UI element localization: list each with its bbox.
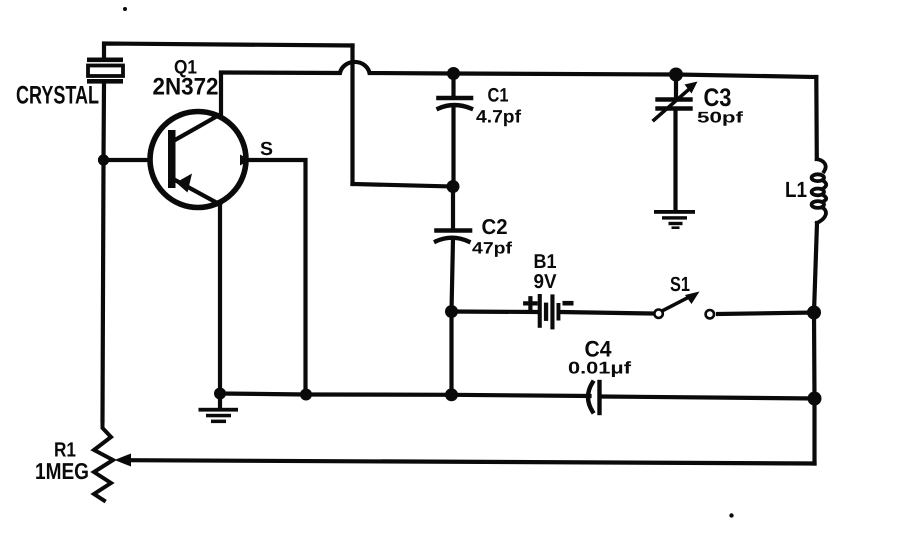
capacitor C4 (588, 382, 600, 413)
node C3 top (669, 68, 683, 82)
wire feedback horizontal to C1-C2 node (353, 184, 454, 187)
battery B1 (525, 294, 573, 329)
svg-text:9V: 9V (534, 271, 558, 293)
ground below emitter (199, 394, 239, 424)
transistor Q1 (150, 112, 246, 208)
wire node to C1 (451, 74, 455, 97)
node C1-C2 junction (447, 180, 460, 193)
capacitor C2 (436, 231, 470, 242)
wire crystal bottom to base node (101, 84, 106, 161)
wire bottom rail to R1 wiper (130, 460, 815, 463)
wire S node right and down (246, 160, 306, 395)
switch S1 (654, 292, 714, 319)
wire base (104, 158, 151, 162)
svg-text:S1: S1 (670, 273, 690, 296)
svg-text:C3: C3 (704, 84, 732, 112)
wire ground rail (220, 394, 590, 397)
wire C3 to ground (673, 110, 677, 210)
svg-text:2N372: 2N372 (153, 74, 219, 101)
svg-text:S: S (260, 139, 273, 160)
wire C2 down to battery rail node (452, 239, 454, 312)
wire collector up (219, 73, 223, 115)
wire battery to switch (561, 312, 652, 314)
svg-text:1MEG: 1MEG (35, 458, 89, 484)
wire top rail with hop over feedback wire (221, 62, 816, 77)
crystal Y1 (87, 58, 123, 84)
node base junction (98, 154, 109, 165)
wire crystal top to feedback corner (104, 44, 353, 59)
svg-text:47pf: 47pf (472, 240, 513, 258)
wire node to C2 (451, 187, 455, 229)
capacitor C1 (439, 98, 472, 109)
resistor R1 (94, 421, 113, 501)
ground below C3 (654, 210, 695, 229)
wire emitter down (218, 205, 222, 394)
svg-text:4.7pf: 4.7pf (476, 107, 522, 127)
svg-text:50pf: 50pf (697, 110, 744, 127)
svg-text:C1: C1 (488, 85, 509, 107)
wire right rail down to bottom corner (812, 399, 816, 464)
wire right rail to ground rail node (812, 313, 817, 399)
node battery rail left (445, 305, 458, 318)
node S on transistor case (240, 155, 251, 166)
node switch rail right (807, 306, 821, 320)
node C1 top (447, 67, 460, 80)
wire right rail down to L1 (814, 77, 819, 159)
wire node to C3 (674, 75, 678, 98)
wire battery node down to ground rail (449, 312, 453, 395)
svg-text:0.01μf: 0.01μf (568, 359, 631, 378)
inductor L1 (812, 159, 827, 223)
wire switch to right rail (718, 313, 814, 315)
svg-text:CRYSTAL: CRYSTAL (16, 82, 99, 110)
svg-text:L1: L1 (785, 177, 807, 202)
node ground rail right (808, 392, 822, 406)
node C2 ground (445, 388, 458, 401)
svg-text:C2: C2 (482, 215, 508, 239)
node emitter ground (214, 388, 226, 400)
wire C4 to right rail (602, 397, 815, 399)
wire L1 down to switch rail node (814, 223, 817, 313)
variable capacitor C3 (654, 82, 698, 121)
wiper arrow of R1 (115, 454, 132, 467)
wire feedback vertical (350, 46, 354, 185)
wire C1 to node (451, 106, 455, 187)
wire battery rail left segment (452, 309, 537, 314)
svg-text:B1: B1 (534, 251, 557, 273)
node S wire ground (300, 389, 312, 401)
wire base node down to R1 (103, 160, 104, 421)
